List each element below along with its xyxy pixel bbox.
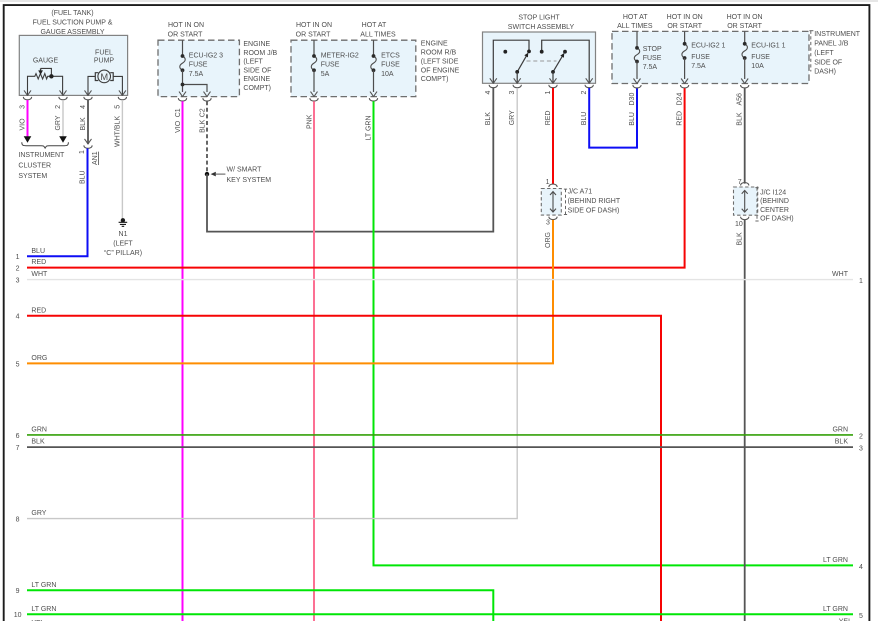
svg-text:7.5A: 7.5A [189,71,204,78]
svg-text:COMPT): COMPT) [421,76,449,83]
pin C1 [175,92,187,118]
svg-text:LT GRN: LT GRN [31,582,56,589]
svg-text:SIDE OF: SIDE OF [814,59,842,66]
stop light pin 2 [581,78,593,94]
svg-text:STOP LIGHT: STOP LIGHT [518,14,560,21]
svg-text:INSTRUMENT: INSTRUMENT [18,152,65,159]
svg-text:M: M [100,72,108,82]
fuel gauge sender (variable resistor) [28,58,63,96]
wire BLK from smart key junction to stop light switch pin 4 [207,88,493,232]
wire BLK A56 down to J/C I124 [737,88,745,183]
svg-text:10A: 10A [381,71,394,78]
svg-text:7: 7 [738,179,742,186]
svg-text:INSTRUMENT: INSTRUMENT [814,31,861,38]
svg-text:VIO: VIO [175,120,182,133]
svg-text:HOT IN ON: HOT IN ON [168,22,204,29]
svg-text:GRY: GRY [31,510,46,517]
svg-text:PANEL J/B: PANEL J/B [814,41,849,48]
svg-text:FUSE: FUSE [321,62,340,69]
svg-text:W/ SMART: W/ SMART [227,166,263,173]
fuel tank pin 4 [80,90,92,108]
svg-text:ROOM J/B: ROOM J/B [243,50,277,57]
junction connector J/C I124 [734,179,758,228]
svg-text:3: 3 [859,446,863,453]
svg-text:OR START: OR START [727,23,762,30]
node 8 GRY label [16,510,47,523]
svg-text:ECU-IG2 3: ECU-IG2 3 [189,52,223,59]
svg-text:(BEHIND RIGHT: (BEHIND RIGHT [568,198,621,205]
wire VIO pin3 to instrument cluster [20,100,32,143]
svg-text:C2: C2 [199,108,206,117]
node 5 ORG label [16,355,48,368]
svg-text:SYSTEM: SYSTEM [18,173,47,180]
svg-text:ENGINE: ENGINE [421,41,448,48]
branch wire to pin C2 [181,83,207,92]
svg-text:BLU: BLU [80,170,87,184]
svg-text:4: 4 [485,91,492,95]
svg-text:SIDE OF: SIDE OF [243,67,271,74]
wire VIO C1 vertical to bottom [175,101,183,621]
svg-text:BLK: BLK [835,439,849,446]
svg-text:ROOM R/B: ROOM R/B [421,50,457,57]
svg-text:9: 9 [16,588,20,595]
ETCS pin [369,92,377,101]
svg-text:SWITCH ASSEMBLY: SWITCH ASSEMBLY [508,24,575,31]
wire RED D24 down to wire 2 left [27,88,685,267]
svg-text:2: 2 [859,433,863,440]
node 2 RED label [16,259,47,272]
fuel pump motor M [88,50,122,96]
fuel suction pump & gauge assembly (fuel tank) [19,10,127,95]
svg-text:DASH): DASH) [814,69,836,76]
node 9 LT GRN label [16,582,57,595]
svg-text:PUMP: PUMP [94,57,115,64]
stop light switch contact 1 [493,40,531,83]
fuse METER-IG2 5A [311,40,359,92]
svg-text:BLK: BLK [31,439,45,446]
svg-text:LT GRN: LT GRN [823,557,848,564]
fuse ECU-IG2 1 7.5A [682,31,726,79]
wire GRY pin3 down to wire 8 left [27,88,517,519]
J/C I124 name bracket [755,188,793,223]
svg-text:HOT AT: HOT AT [362,22,387,29]
svg-text:FUEL: FUEL [95,50,113,57]
svg-text:4: 4 [16,314,20,321]
fuel tank pin 3 [20,90,32,108]
w/ smart key system junction [205,166,271,184]
wire ORG from J/C A71 to wire 5 left [27,220,553,364]
svg-text:ORG: ORG [545,232,552,248]
svg-text:(LEFT: (LEFT [814,50,834,57]
wire BLK from J/C I124 pin 10 to bottom [737,220,745,621]
svg-text:ECU-IG1 1: ECU-IG1 1 [751,42,785,49]
node 6 GRN labels [16,427,863,441]
svg-text:N1: N1 [119,231,128,238]
instrument cluster system brace and label [18,142,68,180]
svg-text:2: 2 [16,266,20,273]
svg-text:FUSE: FUSE [691,54,710,61]
wire 4 RED to x661 then down to bottom [27,316,661,621]
svg-text:HOT IN ON: HOT IN ON [667,14,703,21]
svg-text:RED: RED [31,307,46,314]
svg-text:AN1: AN1 [92,151,99,165]
wire BLK pin4 down to connector AN1 [80,100,88,144]
connector AN1 pin 1 [79,139,99,165]
pin D24 [676,79,688,106]
wire WHT/BLK pin5 to ground N1 [115,100,123,219]
svg-text:SIDE OF DASH): SIDE OF DASH) [568,208,620,215]
svg-text:ENGINE: ENGINE [243,76,270,83]
node 10 LT GRN labels [14,606,863,620]
svg-text:3: 3 [20,105,27,109]
svg-text:KEY SYSTEM: KEY SYSTEM [227,177,272,184]
instrument panel J/B box [612,14,809,84]
svg-text:FUSE: FUSE [643,55,662,62]
METER-IG2 pin [310,92,318,101]
fuel tank pin 5 [115,90,127,108]
svg-text:BLU: BLU [31,248,45,255]
pin C2 [199,92,211,118]
mechanical link dashed [527,60,557,62]
ground N1 (left C pillar) [104,218,142,257]
svg-text:RED: RED [31,259,46,266]
svg-text:RED: RED [545,111,552,126]
svg-text:HOT IN ON: HOT IN ON [296,22,332,29]
wire 7 BLK full width [27,446,853,448]
svg-text:4: 4 [859,564,863,571]
wire BLU pin2 to STOP fuse D30 [581,88,637,148]
svg-text:FUEL SUCTION PUMP &: FUEL SUCTION PUMP & [33,20,113,27]
instrument panel J/B name bracket [809,31,860,76]
svg-text:ALL TIMES: ALL TIMES [617,23,653,30]
junction connector J/C A71 [541,179,561,227]
node 1 BLU label [16,248,45,261]
svg-text:5A: 5A [321,71,330,78]
wire BLK C2 dashed (w/ smart key) [199,101,207,174]
svg-text:BLU: BLU [629,112,636,126]
svg-text:A56: A56 [737,93,744,106]
svg-text:7.5A: 7.5A [691,63,706,70]
svg-text:PNK: PNK [306,114,313,129]
svg-text:OF ENGINE: OF ENGINE [421,67,460,74]
svg-text:(LEFT: (LEFT [243,59,263,66]
svg-text:7: 7 [16,445,20,452]
svg-text:GRY: GRY [509,110,516,125]
stop light switch contact 2 [540,40,589,83]
svg-text:WHT: WHT [832,271,849,278]
svg-text:GRN: GRN [31,427,47,434]
wire RED pin1 down to J/C A71 [545,88,553,184]
svg-text:RED: RED [676,111,683,126]
svg-text:2: 2 [55,105,62,109]
svg-text:LT GRN: LT GRN [823,606,848,613]
wire 9 LT GRN to x493 then down [27,590,493,621]
svg-text:3: 3 [509,91,516,95]
stop light pin 1 [545,78,557,94]
svg-text:3: 3 [16,278,20,285]
node 3 WHT labels [16,271,863,285]
fuse ETCS 10A [371,40,400,92]
stop light switch assembly box [483,14,596,83]
svg-text:(BEHIND: (BEHIND [760,198,789,205]
svg-text:COMPT): COMPT) [243,85,271,92]
svg-text:5: 5 [16,361,20,368]
wire 10 LT GRN full width [27,613,853,615]
svg-text:METER-IG2: METER-IG2 [321,52,359,59]
svg-text:FUSE: FUSE [381,62,400,69]
node 4 right LT GRN label [823,557,863,571]
fuse STOP 7.5A [634,31,662,79]
pin A56 [737,79,749,106]
wire LT GRN from ETCS fuse down and right (wire 4 right) [366,101,853,565]
svg-text:4: 4 [80,105,87,109]
svg-text:BLK: BLK [737,232,744,246]
wire BLU from AN1 to horizontal wire 1 [27,148,88,256]
svg-text:D24: D24 [676,93,683,106]
svg-text:OR START: OR START [296,32,331,39]
svg-text:FUSE: FUSE [751,54,770,61]
svg-text:BLK: BLK [199,119,206,133]
fuel tank pin 2 [55,90,67,108]
svg-text:FUSE: FUSE [189,62,208,69]
svg-text:LT GRN: LT GRN [366,115,373,140]
wire PNK vertical to bottom [306,101,314,621]
svg-text:WHT: WHT [31,271,48,278]
svg-text:1: 1 [79,150,86,154]
svg-text:7.5A: 7.5A [643,64,658,71]
svg-text:1: 1 [545,91,552,95]
svg-text:3: 3 [546,220,550,227]
stop light pin 3 [509,78,521,94]
svg-text:WHT/BLK: WHT/BLK [115,116,122,147]
svg-text:6: 6 [16,433,20,440]
svg-text:CENTER: CENTER [760,207,789,214]
engine room J/B box [158,22,278,96]
svg-text:BLK: BLK [485,112,492,126]
svg-text:10A: 10A [751,63,764,70]
J/C A71 name bracket [564,189,621,215]
svg-text:(LEFT SIDE: (LEFT SIDE [421,58,459,65]
wire 11 YEL labels (cut off at bottom) [31,619,852,621]
wire 6 GRN full width [27,434,853,436]
svg-text:LT GRN: LT GRN [31,606,56,613]
node 7 BLK labels [16,439,863,453]
svg-text:ECU-IG2 1: ECU-IG2 1 [691,42,725,49]
svg-text:OF DASH): OF DASH) [760,216,793,223]
svg-text:HOT AT: HOT AT [623,14,648,21]
svg-text:BLU: BLU [581,112,588,126]
svg-text:D30: D30 [629,93,636,106]
svg-text:10: 10 [735,221,743,228]
svg-text:10: 10 [14,612,22,619]
svg-text:1: 1 [16,254,20,261]
svg-text:8: 8 [16,517,20,524]
wire 3 WHT full width [27,279,853,281]
svg-text:HOT IN ON: HOT IN ON [727,14,763,21]
svg-text:VIO: VIO [20,118,27,131]
svg-text:ENGINE: ENGINE [243,41,270,48]
svg-text:ALL TIMES: ALL TIMES [360,32,396,39]
svg-text:J/C A71: J/C A71 [568,189,593,196]
svg-text:(LEFT: (LEFT [113,241,133,248]
svg-text:ORG: ORG [31,355,47,362]
wire GRY pin2 to instrument cluster [55,100,67,143]
svg-text:GAUGE: GAUGE [33,58,59,65]
svg-text:“C” PILLAR): “C” PILLAR) [104,250,142,257]
svg-text:OR START: OR START [168,32,203,39]
svg-text:OR START: OR START [667,23,702,30]
node 4 RED label [16,307,47,320]
svg-text:(FUEL TANK): (FUEL TANK) [51,10,93,17]
svg-text:BLK: BLK [737,112,744,126]
fuse ECU-IG1 1 10A [742,31,786,79]
pin D30 [629,79,641,106]
svg-text:CLUSTER: CLUSTER [18,163,51,170]
engine room R/B box [291,22,460,96]
svg-text:GRY: GRY [55,115,62,130]
svg-text:ETCS: ETCS [381,52,400,59]
svg-text:1: 1 [859,278,863,285]
svg-text:5: 5 [115,105,122,109]
svg-text:5: 5 [859,613,863,620]
svg-text:STOP: STOP [643,46,662,53]
svg-text:1: 1 [546,179,550,186]
svg-text:2: 2 [581,91,588,95]
svg-text:GRN: GRN [832,427,848,434]
stop light pin 4 [485,78,497,94]
svg-text:C1: C1 [175,108,182,117]
svg-text:J/C I124: J/C I124 [760,189,786,196]
fuse ECU-IG2 3 7.5A [180,40,223,92]
svg-text:BLK: BLK [80,117,87,131]
